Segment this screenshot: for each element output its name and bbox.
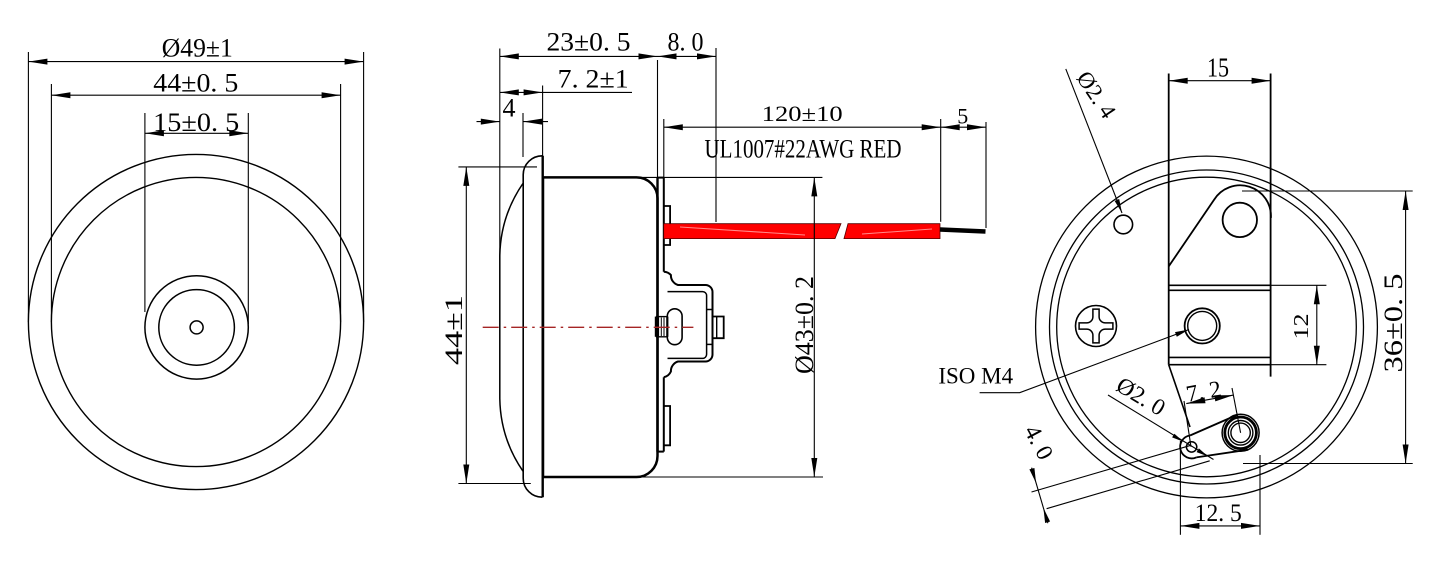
svg-text:15: 15	[1207, 53, 1229, 83]
svg-text:Ø2. 4: Ø2. 4	[1072, 67, 1122, 124]
svg-text:7. 2: 7. 2	[1184, 376, 1223, 408]
svg-text:36±0. 5: 36±0. 5	[1378, 274, 1408, 373]
svg-text:8. 0: 8. 0	[668, 28, 704, 57]
svg-text:5: 5	[957, 103, 968, 128]
svg-text:44±1: 44±1	[441, 295, 468, 365]
svg-text:12: 12	[1289, 314, 1313, 340]
svg-text:120±10: 120±10	[762, 101, 843, 126]
svg-text:4: 4	[503, 93, 516, 122]
svg-text:44±0. 5: 44±0. 5	[153, 68, 238, 97]
svg-text:UL1007#22AWG RED: UL1007#22AWG RED	[705, 135, 902, 164]
svg-text:4. 0: 4. 0	[1018, 421, 1058, 464]
svg-text:15±0. 5: 15±0. 5	[153, 108, 239, 137]
svg-text:ISO M4: ISO M4	[938, 364, 1013, 389]
svg-text:12. 5: 12. 5	[1195, 500, 1242, 527]
svg-text:7. 2±1: 7. 2±1	[558, 65, 629, 94]
svg-text:Ø49±1: Ø49±1	[162, 34, 233, 63]
svg-text:Ø2. 0: Ø2. 0	[1112, 372, 1170, 421]
svg-text:23±0. 5: 23±0. 5	[547, 28, 631, 57]
svg-text:Ø43±0. 2: Ø43±0. 2	[790, 276, 819, 374]
